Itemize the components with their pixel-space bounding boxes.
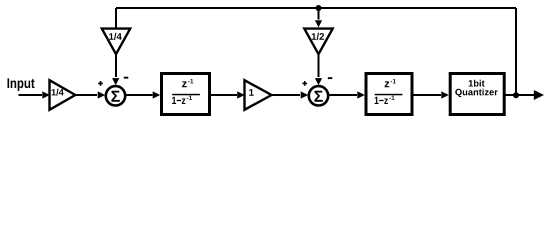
integrator H1 z^-1/(1-z^-1) (162, 74, 210, 115)
gain A2 1 (245, 80, 272, 110)
wire H2 to quantizer U1 (414, 91, 449, 98)
wire S1 to integrator H1 (125, 91, 160, 98)
node N1 output junction dot (513, 92, 519, 98)
minus sign at S2 feedback input (328, 77, 333, 79)
wire A2 to summer S2 (272, 91, 309, 98)
gain A4 1/4 (102, 29, 130, 55)
feedback wire top horizontal (116, 7, 516, 9)
node N2 top junction dot (316, 5, 322, 11)
wire H1 to gain A2 (211, 91, 245, 98)
wire U1 to output (504, 90, 544, 100)
quantizer U1 "1bit Quantizer" (450, 74, 504, 115)
integrator H2 z^-1/(1-z^-1) (366, 74, 412, 115)
plus sign at S1 input (98, 81, 103, 86)
minus sign at S1 feedback input (124, 77, 129, 79)
wire A1 to summer S1 (75, 91, 105, 98)
wire top corner down to gain A4 (115, 8, 117, 28)
wire Input to gain A1 (19, 91, 50, 98)
summer S2 (309, 86, 328, 105)
gain A3 1/2 (304, 29, 332, 55)
wire N2 down to gain A3 (315, 8, 322, 27)
gain A1 1/4 (50, 80, 76, 110)
plus sign at S2 input (302, 81, 307, 86)
input label "Input" (8, 78, 35, 91)
wire A4 to summer S1 (112, 54, 119, 85)
wire A3 to summer S2 (315, 54, 322, 85)
feedback wire right vertical N1 up (515, 8, 517, 95)
summer S1 (106, 86, 125, 105)
wire S2 to integrator H2 (328, 91, 365, 98)
